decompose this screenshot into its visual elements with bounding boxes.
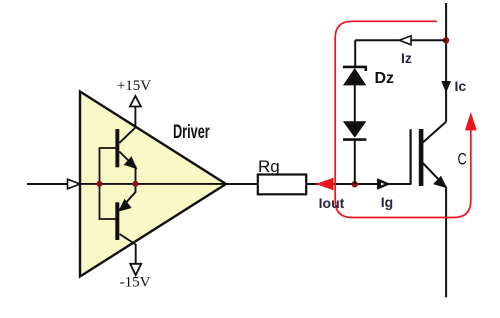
red current loop <box>335 21 471 217</box>
node gate junction <box>352 181 358 187</box>
+15V supply arrow <box>130 96 141 107</box>
transistor Q1 NPN base bar <box>115 129 119 167</box>
wire apex to Rg <box>226 183 258 185</box>
wire across driver to apex <box>80 183 226 185</box>
IGBT body bar <box>419 129 424 186</box>
svg-text:Driver: Driver <box>173 122 210 143</box>
zener Dz1 cathode bar <box>343 67 366 71</box>
wire Dz2 to gate node <box>354 140 356 184</box>
IGBT collector diagonal <box>423 122 446 143</box>
wire Q1 emitter to node <box>135 166 137 184</box>
transistor Q1 emitter <box>119 152 135 168</box>
svg-text:Rg: Rg <box>258 157 280 176</box>
resistor Rg <box>258 175 306 195</box>
wire collector rail top <box>445 3 447 122</box>
svg-text:+15V: +15V <box>117 78 151 94</box>
svg-text:-15V: -15V <box>120 275 151 291</box>
red arrow Iout <box>316 178 334 190</box>
transistor Q1 collector <box>119 128 135 144</box>
IGBT gate lead vertical <box>410 129 412 185</box>
arrow Iz <box>399 36 411 45</box>
wire emitter down <box>445 187 447 297</box>
wire Q2 collector to -15V <box>135 244 137 264</box>
node right junction <box>133 181 139 187</box>
wire base bracket <box>100 148 117 219</box>
node left junction <box>97 181 103 187</box>
svg-text:Dz: Dz <box>375 70 395 87</box>
transistor Q2 emitter arrowhead <box>120 200 131 210</box>
IGBT emitter arrowhead <box>434 177 446 188</box>
wire gate node to gate lead <box>355 183 411 185</box>
svg-text:Iout: Iout <box>319 195 345 211</box>
wire +15V to Q1 collector <box>134 107 136 129</box>
zener Dz2 cathode bar <box>343 138 366 141</box>
svg-text:C: C <box>458 150 467 169</box>
red arrow Ic loop <box>465 112 477 130</box>
wire Iz branch horizontal <box>355 39 446 41</box>
IGBT emitter diagonal <box>423 163 446 187</box>
input arrowhead <box>68 179 81 189</box>
svg-text:Ic: Ic <box>455 78 467 94</box>
svg-text:Iz: Iz <box>401 50 412 66</box>
transistor Q2 collector <box>120 234 136 245</box>
arrow Ic <box>442 82 450 92</box>
transistor Q1 emitter arrowhead <box>125 158 136 168</box>
node collector junction <box>443 37 449 43</box>
arrow Ig <box>378 179 389 188</box>
svg-text:Ig: Ig <box>381 194 393 210</box>
-15V supply arrow <box>130 264 141 275</box>
wire Dz1 to Dz2 <box>354 85 356 122</box>
wire node to Q2 emitter <box>135 183 137 193</box>
op-amp driver U1 <box>80 92 226 277</box>
wire Iz branch vertical <box>354 40 356 67</box>
zener Dz2 body <box>343 121 366 138</box>
wire Rg to gate node <box>306 183 355 185</box>
zener Dz1 body <box>343 68 366 85</box>
transistor Q2 emitter <box>120 192 136 210</box>
wire input left <box>27 183 72 185</box>
transistor Q2 PNP base bar <box>115 202 119 240</box>
